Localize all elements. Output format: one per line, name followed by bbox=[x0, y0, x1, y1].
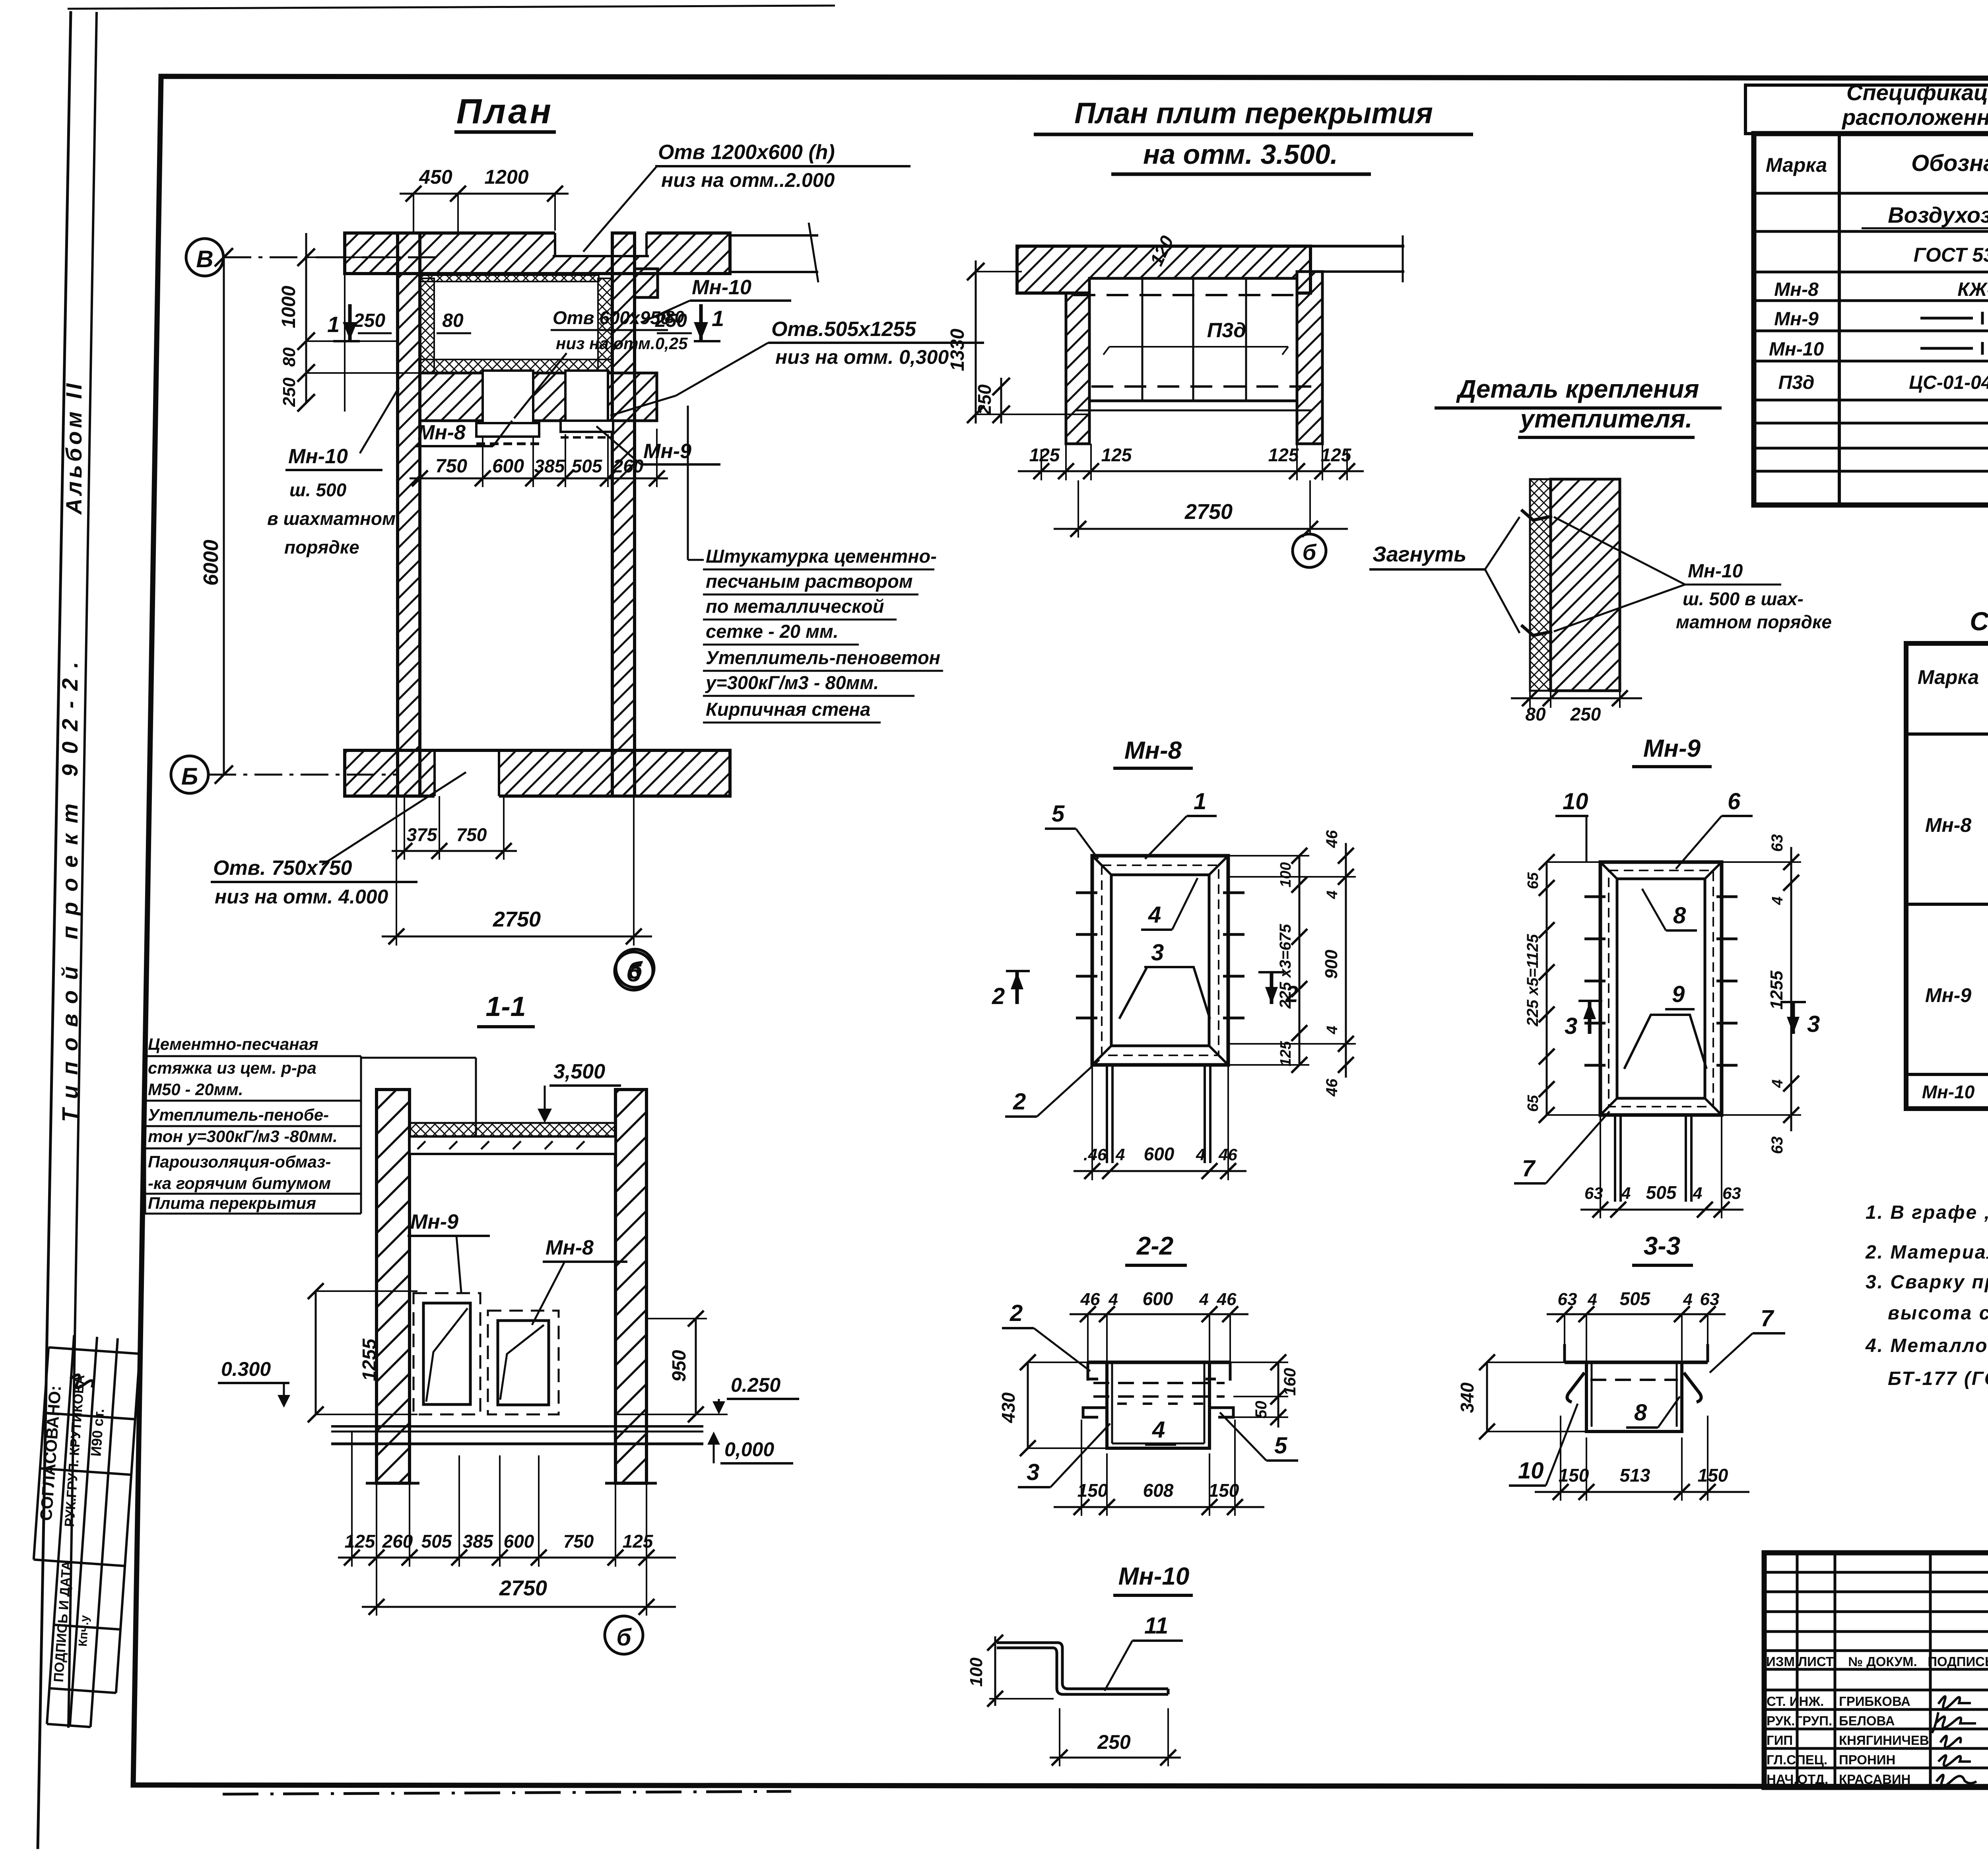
Mn-9 right dim 1255 bbox=[1790, 847, 1792, 1131]
svg-text:песчаным раствором: песчаным раствором bbox=[706, 571, 913, 592]
section 3-3 hooks bbox=[1567, 1373, 1584, 1402]
svg-text:950: 950 bbox=[669, 1350, 690, 1382]
svg-text:Пароизоляция-обмаз-: Пароизоляция-обмаз- bbox=[148, 1152, 331, 1171]
svg-text:80: 80 bbox=[1525, 704, 1546, 725]
svg-text:тон у=300кГ/м3 -80мм.: тон у=300кГ/м3 -80мм. bbox=[148, 1127, 338, 1146]
svg-text:БТ-177 (ГОСТ 5631-70*).: БТ-177 (ГОСТ 5631-70*). bbox=[1888, 1368, 1988, 1389]
svg-text:низ на отм. 4.000: низ на отм. 4.000 bbox=[215, 886, 388, 908]
svg-text:4: 4 bbox=[1108, 1290, 1118, 1309]
svg-text:1000: 1000 bbox=[278, 286, 299, 328]
svg-text:б: б bbox=[616, 1624, 632, 1651]
svg-text:5: 5 bbox=[1052, 801, 1065, 827]
section 1-1 note box bbox=[148, 1035, 338, 1212]
svg-text:63: 63 bbox=[1722, 1184, 1741, 1202]
svg-text:4: 4 bbox=[1683, 1290, 1692, 1309]
section 3-3 angle body bbox=[1565, 1361, 1708, 1364]
svg-text:505: 505 bbox=[1646, 1182, 1677, 1203]
svg-text:6000: 6000 bbox=[200, 540, 223, 586]
svg-text:65: 65 bbox=[1525, 872, 1541, 889]
svg-text:8: 8 bbox=[1673, 903, 1686, 928]
section 1-1 embedded frame Mn-9 bbox=[414, 1293, 480, 1414]
svg-text:Мн-9: Мн-9 bbox=[1774, 309, 1819, 330]
slab plan right wall bbox=[1297, 272, 1322, 444]
Mn-8 bottom dims 46/4/600/4/46 bbox=[1074, 1170, 1246, 1172]
svg-text:КРАСАВИН: КРАСАВИН bbox=[1839, 1772, 1911, 1787]
svg-text:матном порядке: матном порядке bbox=[1676, 612, 1832, 632]
svg-text:б: б bbox=[1303, 540, 1317, 565]
svg-text:в шахматном: в шахматном bbox=[267, 508, 396, 529]
section 1-1 dim 950 bbox=[695, 1319, 697, 1414]
svg-text:260: 260 bbox=[382, 1531, 413, 1552]
svg-text:4: 4 bbox=[1769, 896, 1786, 905]
svg-text:РУК.ГРУП.: РУК.ГРУП. bbox=[1767, 1713, 1832, 1728]
svg-text:225 х3=675: 225 х3=675 bbox=[1277, 924, 1294, 1009]
svg-text:Отв.505х1255: Отв.505х1255 bbox=[771, 318, 916, 341]
svg-text:Мн-9: Мн-9 bbox=[410, 1210, 458, 1233]
section 2-2 left dim 430 bbox=[1027, 1362, 1029, 1448]
svg-text:расположенным на листе.: расположенным на листе. bbox=[1841, 105, 1988, 130]
svg-text:П3д: П3д bbox=[1778, 372, 1815, 393]
opening Mn-8 in inner wall bbox=[483, 371, 533, 423]
svg-text:П3д: П3д bbox=[1207, 319, 1246, 342]
svg-text:ГЛ.СПЕЦ.: ГЛ.СПЕЦ. bbox=[1767, 1752, 1827, 1767]
section 2-2 bottom dims 150/608/150 bbox=[1054, 1506, 1264, 1508]
section 2-2 side lugs bbox=[1083, 1408, 1107, 1417]
svg-text:4: 4 bbox=[1115, 1145, 1125, 1164]
svg-text:125: 125 bbox=[1277, 1041, 1294, 1066]
svg-text:2750: 2750 bbox=[1184, 500, 1233, 524]
section 2-2 channel body bbox=[1088, 1361, 1230, 1364]
svg-text:на отм. 3.500.: на отм. 3.500. bbox=[1143, 139, 1338, 170]
svg-text:4: 4 bbox=[1621, 1184, 1631, 1202]
detail bottom dims 80/250 bbox=[1511, 697, 1642, 699]
svg-text:65: 65 bbox=[1525, 1095, 1541, 1112]
svg-text:План плит перекрытия: План плит перекрытия bbox=[1074, 97, 1433, 130]
svg-text:1: 1 bbox=[327, 312, 340, 337]
svg-text:1200: 1200 bbox=[484, 166, 528, 188]
svg-text:Марка: Марка bbox=[1766, 154, 1827, 176]
svg-text:4: 4 bbox=[1148, 902, 1161, 928]
svg-text:4: 4 bbox=[1199, 1290, 1208, 1309]
svg-text:250: 250 bbox=[1097, 1731, 1131, 1753]
vertical dim 6000 bbox=[223, 257, 225, 775]
svg-text:-ка горячим битумом: -ка горячим битумом bbox=[148, 1174, 331, 1193]
spec elements table grid bbox=[1754, 134, 1988, 505]
svg-text:.46: .46 bbox=[1083, 1145, 1107, 1164]
svg-text:750: 750 bbox=[563, 1531, 594, 1552]
anchor frame below opening Mn-8 bbox=[476, 423, 539, 437]
svg-text:Воздухозаборная: Воздухозаборная bbox=[1888, 202, 1988, 227]
svg-text:375: 375 bbox=[407, 824, 438, 845]
svg-text:6: 6 bbox=[1728, 789, 1741, 814]
grid bubble b section 1-1 bbox=[605, 1616, 643, 1654]
svg-text:1. В графе „примечание“ дана м: 1. В графе „примечание“ дана масса элеме… bbox=[1866, 1202, 1988, 1223]
svg-text:50: 50 bbox=[1252, 1401, 1270, 1419]
svg-text:ГОСТ 5336- 67*: ГОСТ 5336- 67* bbox=[1914, 244, 1988, 266]
svg-text:385: 385 bbox=[463, 1531, 494, 1552]
svg-text:НАЧ.ОТД.: НАЧ.ОТД. bbox=[1767, 1772, 1828, 1787]
svg-text:Кирпичная стена: Кирпичная стена bbox=[706, 699, 870, 720]
Mn-9 frame inner bbox=[1617, 879, 1705, 1098]
svg-text:Штукатурка цементно-: Штукатурка цементно- bbox=[706, 546, 937, 567]
Mn-10 dim 250 bbox=[1050, 1757, 1181, 1759]
title block signature rows bbox=[1767, 1694, 1929, 1787]
svg-text:11: 11 bbox=[1144, 1613, 1168, 1639]
svg-text:Цементно-песчаная: Цементно-песчаная bbox=[148, 1035, 318, 1053]
title block header row bbox=[1766, 1654, 1988, 1669]
Mn-9 bent plate pos9 bbox=[1624, 1015, 1706, 1069]
svg-text:3: 3 bbox=[1807, 1011, 1820, 1037]
slab plan dim 2750 bbox=[1054, 528, 1348, 530]
svg-text:80: 80 bbox=[442, 310, 464, 331]
svg-text:ш. 500: ш. 500 bbox=[289, 480, 347, 500]
svg-text:900: 900 bbox=[1322, 950, 1341, 979]
svg-text:46: 46 bbox=[1323, 1078, 1341, 1097]
svg-text:Деталь крепления: Деталь крепления bbox=[1456, 375, 1699, 403]
slab plan dim 250 bbox=[1000, 378, 1002, 423]
svg-text:2750: 2750 bbox=[493, 907, 541, 931]
general notes bbox=[1865, 1202, 1988, 1389]
svg-text:0.250: 0.250 bbox=[731, 1374, 780, 1396]
svg-text:505: 505 bbox=[572, 456, 603, 476]
svg-text:БЕЛОВА: БЕЛОВА bbox=[1839, 1713, 1895, 1728]
svg-text:б: б bbox=[627, 957, 643, 984]
title block outer bbox=[1764, 1553, 1988, 1787]
svg-text:7: 7 bbox=[1522, 1156, 1536, 1181]
svg-text:Мн-10: Мн-10 bbox=[1922, 1082, 1975, 1102]
detail insulation layer bbox=[1530, 479, 1551, 691]
Mn-9 frame outer bbox=[1600, 862, 1722, 1115]
Mn-10 dim 100 bbox=[994, 1636, 996, 1706]
Mn-8 right dim 900 bbox=[1345, 843, 1347, 1078]
svg-text:160: 160 bbox=[1280, 1368, 1299, 1396]
slab plan left wall bbox=[1066, 293, 1089, 444]
svg-text:125: 125 bbox=[1029, 445, 1060, 465]
svg-text:Отв 1200х600 (h): Отв 1200х600 (h) bbox=[658, 141, 835, 164]
svg-text:4: 4 bbox=[1324, 890, 1341, 899]
svg-text:ЦС-01-04, вып 2.: ЦС-01-04, вып 2. bbox=[1909, 372, 1988, 393]
svg-text:КНЯГИНИЧЕВ: КНЯГИНИЧЕВ bbox=[1839, 1733, 1929, 1748]
svg-text:2: 2 bbox=[992, 983, 1005, 1009]
svg-text:10: 10 bbox=[1563, 789, 1588, 814]
left margin column line bbox=[68, 12, 97, 1728]
Mn-8 frame inner bbox=[1111, 875, 1209, 1046]
svg-text:250: 250 bbox=[280, 377, 299, 407]
svg-text:3-3: 3-3 bbox=[1644, 1231, 1681, 1260]
svg-text:Мн-8: Мн-8 bbox=[1925, 814, 1972, 836]
section 1-1 wall footings bbox=[366, 1482, 419, 1485]
plaster note block bbox=[705, 546, 940, 720]
svg-text:Альбом II: Альбом II bbox=[61, 380, 86, 515]
Mn-9 left dim chain 225x5 bbox=[1546, 862, 1548, 1115]
svg-text:125: 125 bbox=[1101, 445, 1132, 465]
chamber insulation liner bbox=[420, 275, 599, 282]
svg-text:План: План bbox=[456, 91, 553, 131]
svg-text:63: 63 bbox=[1700, 1290, 1720, 1309]
axis B bbox=[171, 756, 208, 793]
paper top edge line bbox=[68, 6, 835, 9]
dim 2750 plan bbox=[382, 936, 652, 938]
spec elements heading box bbox=[1745, 85, 1988, 134]
svg-text:4: 4 bbox=[1587, 1290, 1597, 1309]
svg-text:3: 3 bbox=[1027, 1459, 1039, 1485]
svg-text:Мн-10: Мн-10 bbox=[692, 276, 751, 299]
svg-text:150: 150 bbox=[1698, 1465, 1728, 1486]
grid bubble b slab plan bbox=[1293, 534, 1326, 567]
extension line below top wall left edge bbox=[344, 274, 346, 412]
svg-text:Б: Б bbox=[181, 763, 198, 790]
section 2-2 top dims bbox=[1070, 1313, 1248, 1315]
svg-text:63: 63 bbox=[1769, 1136, 1786, 1154]
svg-text:46: 46 bbox=[1218, 1145, 1237, 1164]
svg-text:Утеплитель-пеноветон: Утеплитель-пеноветон bbox=[706, 647, 940, 668]
svg-text:9: 9 bbox=[1672, 981, 1685, 1007]
svg-text:1255: 1255 bbox=[1767, 971, 1786, 1010]
svg-text:513: 513 bbox=[1620, 1465, 1650, 1486]
svg-text:ПРОНИН: ПРОНИН bbox=[1839, 1752, 1895, 1767]
svg-text:2-2: 2-2 bbox=[1136, 1231, 1174, 1260]
plan right wall bbox=[612, 233, 635, 796]
paper left edge line bbox=[38, 11, 71, 1849]
svg-text:Мн-10: Мн-10 bbox=[1769, 339, 1824, 360]
svg-text:3,500: 3,500 bbox=[553, 1060, 605, 1083]
svg-text:стяжка из цем. р-ра: стяжка из цем. р-ра bbox=[148, 1059, 316, 1077]
svg-text:750: 750 bbox=[435, 456, 467, 477]
svg-text:250: 250 bbox=[353, 310, 385, 331]
svg-text:2. Материал металлоконструкций: 2. Материал металлоконструкций-сталь мар… bbox=[1865, 1242, 1988, 1263]
svg-text:7: 7 bbox=[1761, 1305, 1774, 1331]
section 3-3 top dims bbox=[1547, 1313, 1726, 1315]
svg-text:0,000: 0,000 bbox=[724, 1438, 774, 1461]
svg-text:63: 63 bbox=[1769, 834, 1786, 852]
svg-text:Мн-10: Мн-10 bbox=[1118, 1563, 1190, 1590]
slab plan top wall bbox=[1017, 246, 1310, 293]
svg-text:63: 63 bbox=[1584, 1184, 1603, 1202]
svg-text:Мн-10: Мн-10 bbox=[1688, 561, 1743, 582]
svg-text:225 х5=1125: 225 х5=1125 bbox=[1524, 934, 1541, 1026]
plan top wall bbox=[345, 233, 730, 274]
Mn-8 anchor bars below bbox=[1107, 1065, 1210, 1163]
svg-text:430: 430 bbox=[998, 1392, 1019, 1423]
Mn-9 bottom dims 63/4/505/4/63 bbox=[1580, 1209, 1743, 1211]
svg-text:2750: 2750 bbox=[499, 1576, 547, 1600]
Mn-8 frame outer bbox=[1092, 856, 1228, 1065]
svg-text:505: 505 bbox=[1620, 1288, 1651, 1309]
section 1-1 right wall bbox=[615, 1090, 646, 1483]
svg-text:Спецификация элементов к марки: Спецификация элементов к маркировочным с… bbox=[1846, 80, 1988, 105]
bottom edge speckle bbox=[223, 1791, 791, 1794]
svg-text:ш. 500 в шах-: ш. 500 в шах- bbox=[1683, 589, 1804, 609]
svg-text:150: 150 bbox=[1209, 1480, 1239, 1501]
svg-text:высота сварного шва hш= 4мм.: высота сварного шва hш= 4мм. bbox=[1888, 1303, 1988, 1324]
svg-text:100: 100 bbox=[967, 1657, 986, 1687]
svg-text:Утеплитель-пенобе-: Утеплитель-пенобе- bbox=[148, 1105, 329, 1124]
svg-text:4: 4 bbox=[1324, 1026, 1341, 1034]
section 1-1 left wall bbox=[377, 1090, 410, 1483]
svg-text:250: 250 bbox=[1570, 704, 1601, 725]
svg-text:4: 4 bbox=[1693, 1184, 1702, 1202]
section 1-1 embedded frame Mn-8 bbox=[488, 1311, 559, 1414]
section 1-1 dim 2750 bbox=[362, 1606, 676, 1608]
svg-text:ПОДПИСЬ: ПОДПИСЬ bbox=[1928, 1654, 1988, 1669]
svg-text:125: 125 bbox=[623, 1531, 654, 1552]
svg-text:600: 600 bbox=[1144, 1144, 1175, 1164]
svg-text:250: 250 bbox=[974, 384, 995, 415]
svg-text:Кпч.у: Кпч.у bbox=[76, 1615, 91, 1647]
section 3-3 left dim 340 bbox=[1486, 1362, 1488, 1432]
svg-text:100: 100 bbox=[1277, 862, 1294, 887]
svg-text:Мн-9: Мн-9 bbox=[1643, 735, 1701, 762]
svg-text:низ на отм. 0,300: низ на отм. 0,300 bbox=[775, 346, 949, 368]
bottom-left approval table bbox=[22, 1334, 141, 1729]
svg-text:1330: 1330 bbox=[947, 328, 968, 371]
svg-text:Мн-8: Мн-8 bbox=[417, 421, 466, 444]
Mn-8 anchor ticks bbox=[1076, 893, 1244, 1018]
spec marok table grid bbox=[1906, 643, 1988, 1109]
svg-text:4: 4 bbox=[1152, 1417, 1165, 1443]
svg-text:4. Металлоконструкции окрасить: 4. Металлоконструкции окрасить за 2 раза… bbox=[1865, 1335, 1988, 1356]
Mn-8 mitred corners bbox=[1092, 856, 1228, 1065]
section 1-1 roof slab bbox=[410, 1123, 615, 1136]
svg-text:Мн-9: Мн-9 bbox=[643, 440, 691, 463]
Mn-8 bent plate pos3 bbox=[1119, 967, 1210, 1019]
svg-text:ГРИБКОВА: ГРИБКОВА bbox=[1839, 1694, 1910, 1709]
svg-text:Мн-8: Мн-8 bbox=[546, 1236, 594, 1259]
svg-text:150: 150 bbox=[1077, 1480, 1108, 1501]
dim 375/750 bbox=[392, 850, 517, 852]
slab panels bbox=[1089, 278, 1297, 401]
Mn-9 mitred corners bbox=[1600, 862, 1722, 1115]
svg-text:150: 150 bbox=[1559, 1465, 1589, 1486]
top dim 450/1200 bbox=[400, 193, 569, 195]
section 2-2 right dims 160/50 bbox=[1277, 1362, 1279, 1428]
section 1-1 floor slab bbox=[331, 1425, 703, 1428]
svg-text:В: В bbox=[196, 246, 213, 272]
svg-text:ГИП: ГИП bbox=[1767, 1733, 1793, 1748]
svg-text:Плита перекрытия: Плита перекрытия bbox=[148, 1194, 316, 1212]
svg-text:385: 385 bbox=[534, 456, 565, 476]
anchor frame below opening Mn-9 bbox=[561, 421, 613, 432]
svg-text:125: 125 bbox=[1268, 445, 1299, 465]
svg-text:2: 2 bbox=[1013, 1089, 1026, 1115]
svg-text:сетке - 20 мм.: сетке - 20 мм. bbox=[706, 621, 839, 642]
grid bubble b plan bbox=[615, 952, 653, 990]
svg-text:№ ДОКУМ.: № ДОКУМ. bbox=[1848, 1654, 1917, 1669]
svg-text:2: 2 bbox=[1010, 1300, 1023, 1326]
svg-text:3. Сварку производить электрод: 3. Сварку производить электродами Э-42, … bbox=[1866, 1272, 1988, 1293]
plan pilaster bbox=[635, 269, 658, 297]
svg-text:Мн-10: Мн-10 bbox=[288, 445, 348, 468]
svg-text:505: 505 bbox=[421, 1531, 452, 1552]
svg-text:ЛИСТ: ЛИСТ bbox=[1798, 1654, 1834, 1669]
slab plan dim 1330 bbox=[975, 260, 977, 423]
svg-text:340: 340 bbox=[1457, 1382, 1477, 1413]
svg-text:Обозначение: Обозначение bbox=[1911, 150, 1988, 176]
svg-text:750: 750 bbox=[456, 824, 487, 845]
svg-text:Мн-9: Мн-9 bbox=[1925, 984, 1972, 1006]
svg-text:0.300: 0.300 bbox=[221, 1358, 271, 1380]
detail brick wall bbox=[1551, 479, 1620, 691]
svg-text:10: 10 bbox=[1518, 1458, 1544, 1484]
svg-text:8: 8 bbox=[1634, 1400, 1647, 1426]
svg-text:СТ. ИНЖ.: СТ. ИНЖ. bbox=[1767, 1694, 1824, 1709]
svg-text:порядке: порядке bbox=[284, 537, 359, 557]
svg-text:утеплителя.: утеплителя. bbox=[1519, 404, 1693, 433]
Mn-9 anchor bars below bbox=[1615, 1115, 1691, 1202]
svg-text:1: 1 bbox=[712, 306, 724, 331]
plan left wall bbox=[398, 233, 420, 796]
svg-text:260: 260 bbox=[613, 456, 644, 476]
svg-text:у=300кГ/м3 - 80мм.: у=300кГ/м3 - 80мм. bbox=[705, 672, 879, 693]
section mark 1 left bbox=[348, 304, 352, 340]
svg-text:4: 4 bbox=[1196, 1145, 1205, 1164]
svg-text:1: 1 bbox=[1194, 789, 1206, 814]
svg-text:3: 3 bbox=[1151, 940, 1164, 965]
svg-text:3: 3 bbox=[1565, 1013, 1577, 1039]
Mn-9 anchor ticks bbox=[1584, 897, 1738, 1065]
svg-text:Загнуть: Загнуть bbox=[1373, 542, 1466, 566]
svg-text:4: 4 bbox=[1769, 1079, 1786, 1088]
Mn-8 right dim chain 225x3 bbox=[1299, 856, 1301, 1065]
axis V bbox=[186, 239, 223, 276]
detail anchor hooks bbox=[1521, 510, 1552, 520]
plan bottom wall bbox=[345, 750, 730, 796]
svg-text:600: 600 bbox=[492, 456, 524, 477]
svg-text:450: 450 bbox=[419, 166, 452, 188]
svg-text:600: 600 bbox=[504, 1531, 534, 1552]
section mark 1 right bbox=[699, 304, 703, 340]
svg-text:низ на отм.0,25: низ на отм.0,25 bbox=[556, 334, 688, 353]
svg-text:125: 125 bbox=[345, 1531, 376, 1552]
svg-text:Мн-8: Мн-8 bbox=[1774, 279, 1819, 300]
Mn-10 Z-profile bbox=[997, 1643, 1168, 1689]
svg-text:ИЗМ: ИЗМ bbox=[1766, 1654, 1795, 1669]
inner wall below chamber bbox=[420, 373, 657, 421]
section 1-1 dim 1255 bbox=[315, 1291, 317, 1414]
section 3-3 bottom dims 150/513/150 bbox=[1535, 1491, 1749, 1493]
svg-text:Типовой проект 902-2.: Типовой проект 902-2. bbox=[57, 651, 82, 1122]
dim chain 750/600/385/505/260 bbox=[410, 478, 668, 480]
title block signatures bbox=[1932, 1696, 1976, 1787]
svg-text:46: 46 bbox=[1080, 1290, 1100, 1309]
svg-text:608: 608 bbox=[1143, 1480, 1174, 1501]
svg-text:Марка: Марка bbox=[1918, 666, 1979, 688]
svg-text:1255: 1255 bbox=[359, 1338, 380, 1381]
svg-text:КЖ-26: КЖ-26 bbox=[1957, 279, 1988, 300]
title block left grid bbox=[1764, 1553, 1988, 1787]
svg-text:М50 - 20мм.: М50 - 20мм. bbox=[148, 1080, 243, 1099]
svg-text:низ на отм..2.000: низ на отм..2.000 bbox=[661, 169, 835, 191]
svg-text:1-1: 1-1 bbox=[485, 991, 526, 1022]
svg-text:46: 46 bbox=[1323, 830, 1341, 848]
opening Mn-9 in inner wall bbox=[565, 371, 608, 421]
section 1-1 bottom dim chain bbox=[338, 1557, 676, 1559]
svg-text:63: 63 bbox=[1558, 1290, 1577, 1309]
svg-text:по металлической: по металлической bbox=[706, 596, 884, 617]
svg-text:80: 80 bbox=[280, 347, 299, 367]
svg-text:Спецификация марок.: Спецификация марок. bbox=[1970, 606, 1988, 636]
left rotated dims 1000/80/250 bbox=[305, 233, 307, 403]
svg-text:И90 ст.: И90 ст. bbox=[87, 1408, 107, 1457]
svg-text:46: 46 bbox=[1217, 1290, 1237, 1309]
slab plan bottom dims 125 bbox=[1018, 470, 1364, 472]
svg-text:125: 125 bbox=[1321, 445, 1352, 465]
svg-text:Мн-8: Мн-8 bbox=[1124, 737, 1182, 764]
grid bubble b above section 1-1 bbox=[616, 949, 654, 987]
svg-text:5: 5 bbox=[1274, 1433, 1287, 1459]
svg-text:600: 600 bbox=[1143, 1288, 1173, 1309]
